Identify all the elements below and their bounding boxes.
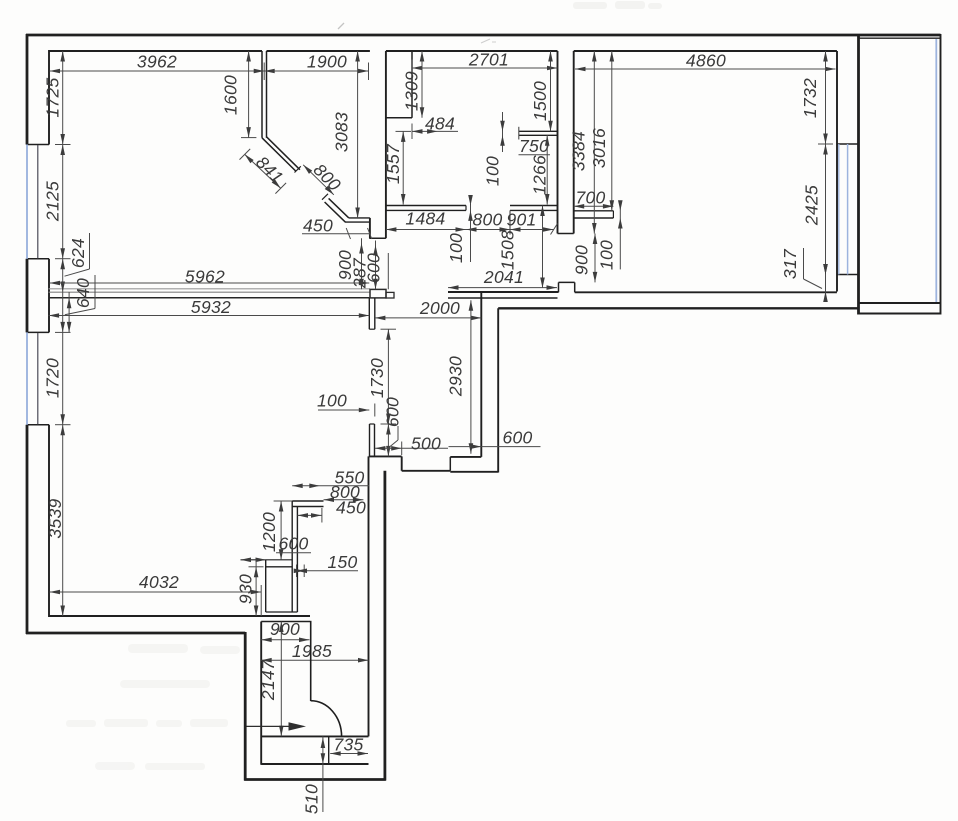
wall corridor outer left — [244, 632, 247, 781]
svg-text:5932: 5932 — [191, 297, 231, 317]
dimension 750 shelf — [519, 136, 551, 156]
scan ghost bottom words — [66, 644, 240, 770]
wall outer bottom-left — [26, 632, 245, 635]
wall bottom room top edge — [49, 615, 310, 617]
partition bath A — [386, 206, 466, 211]
dimension 2425 — [802, 144, 834, 275]
wall inner left mid — [48, 259, 50, 333]
svg-text:4032: 4032 — [139, 572, 179, 592]
dimension 735 niche — [330, 735, 368, 756]
svg-text:1732: 1732 — [800, 78, 820, 118]
dimension 4860 bedroom top — [575, 51, 836, 72]
svg-text:800: 800 — [472, 210, 502, 230]
dimension 5932 — [49, 297, 370, 318]
svg-text:1900: 1900 — [307, 52, 347, 72]
svg-text:2425: 2425 — [802, 185, 822, 226]
closet partition — [292, 501, 297, 612]
partition bath B — [510, 206, 558, 235]
dimension 287 junction — [350, 241, 378, 290]
svg-text:450: 450 — [336, 498, 366, 518]
svg-text:900: 900 — [270, 619, 300, 639]
closet cell left — [265, 560, 267, 612]
svg-text:3384: 3384 — [569, 131, 589, 171]
balcony bottom inner — [859, 302, 941, 304]
svg-text:600: 600 — [364, 253, 384, 283]
dimension 2041 — [448, 267, 557, 290]
dimension 1725 — [43, 51, 71, 145]
window W1 mid line — [37, 145, 39, 258]
wall corridor outer right — [383, 471, 386, 781]
svg-text:317: 317 — [780, 248, 800, 279]
wall hall south step — [369, 456, 498, 471]
wall hall east outer — [497, 308, 499, 472]
dimension 2000 hall — [375, 298, 481, 320]
svg-text:1557: 1557 — [383, 143, 403, 184]
dimension 3962 top — [50, 52, 265, 81]
wall kitchen south bottom — [448, 297, 558, 299]
closet top wall — [292, 501, 323, 507]
hall partition stub — [370, 424, 375, 456]
dimension 800 closet door — [324, 482, 364, 502]
dimension 600 junction — [364, 253, 389, 289]
window W3 blue lines — [839, 144, 848, 275]
svg-text:735: 735 — [333, 735, 363, 755]
entry arrow — [247, 722, 307, 730]
dimension 510 niche — [302, 736, 326, 814]
svg-text:600: 600 — [278, 534, 308, 554]
dimension 1600 partition — [221, 51, 257, 138]
wall bedroom pier — [559, 282, 575, 292]
wall corridor top band — [261, 621, 310, 623]
dimension 1720 — [43, 322, 71, 435]
junction box — [370, 289, 386, 298]
wall room divider line3 — [49, 297, 370, 299]
wall outer right — [857, 34, 860, 315]
balcony top edge — [859, 37, 941, 39]
svg-text:4860: 4860 — [686, 51, 726, 71]
svg-text:484: 484 — [425, 114, 455, 134]
window W1 sill top — [27, 144, 50, 146]
window W1 sill bottom — [27, 258, 50, 260]
dimension 484 — [412, 114, 458, 140]
window W2 outer blue — [26, 332, 28, 424]
dimension 3083 kitchen west — [332, 51, 360, 218]
wall inner top kitchen — [386, 50, 558, 52]
dimension 2701 kitchen top — [412, 50, 558, 77]
dimension 841 diagonal — [240, 149, 288, 194]
dimension 624 ticks — [60, 233, 89, 292]
svg-text:3016: 3016 — [589, 128, 609, 168]
svg-text:640: 640 — [73, 278, 93, 308]
dimension 100 bedroom partition — [597, 200, 623, 270]
dimension 1266 — [530, 135, 550, 204]
shelf 750 closet — [519, 127, 558, 140]
svg-text:100: 100 — [483, 156, 503, 186]
wall outer left lower — [26, 425, 29, 634]
dimension 4032 — [50, 572, 262, 616]
window W3 sill bottom — [837, 274, 859, 276]
dimension 500 hall south — [375, 434, 448, 456]
balcony bottom outer — [859, 313, 941, 315]
wall kitchen south top — [448, 291, 559, 293]
svg-text:1266: 1266 — [530, 155, 550, 195]
balcony right wall — [940, 34, 942, 315]
svg-text:100: 100 — [317, 391, 347, 411]
dimension 1557 — [383, 131, 411, 204]
wall corridor niche bottom — [261, 763, 368, 765]
door arc entry corridor — [311, 701, 342, 737]
wall band cap y238 — [369, 237, 386, 239]
window W2 sill top — [27, 331, 50, 333]
window W3 sill top — [837, 143, 859, 145]
dimension 2125 — [43, 145, 71, 259]
dimension 900 corridor — [261, 619, 309, 642]
dimension 100 shelf — [483, 112, 505, 186]
dimension 450 kitchen corner — [302, 216, 372, 240]
dimension 1732 — [800, 51, 828, 144]
dimension 901 — [506, 210, 557, 235]
svg-text:150: 150 — [327, 552, 357, 572]
dimension 1508 — [498, 206, 545, 289]
svg-text:1720: 1720 — [43, 358, 63, 398]
wall south band inner bedroom — [575, 291, 837, 293]
svg-text:1200: 1200 — [259, 512, 279, 552]
junction stub box — [386, 292, 394, 298]
wall inner top closet — [267, 50, 370, 52]
svg-text:2147: 2147 — [258, 659, 278, 701]
dimension 100 hall partition — [317, 391, 375, 417]
svg-text:700: 700 — [575, 188, 605, 208]
svg-text:2000: 2000 — [419, 298, 460, 318]
dimension 1730 hall door — [367, 329, 396, 424]
wall inner left lower — [48, 425, 50, 617]
svg-text:450: 450 — [303, 216, 333, 236]
vent block kitchen — [386, 51, 412, 118]
dimension 3016 — [589, 51, 614, 211]
svg-text:1730: 1730 — [367, 358, 387, 398]
svg-text:750: 750 — [519, 136, 549, 156]
svg-text:1309: 1309 — [402, 71, 422, 111]
wall outer top — [26, 34, 941, 37]
wall outer left upper — [26, 34, 29, 145]
closet cell bottom — [266, 611, 298, 613]
diagonal wall D1 — [262, 137, 301, 173]
svg-text:3962: 3962 — [137, 52, 177, 72]
wall inner left upper — [48, 50, 50, 145]
partition bedroom 700 — [574, 211, 614, 218]
hall partition upper — [369, 298, 375, 329]
svg-text:3539: 3539 — [45, 498, 65, 538]
dimension 900 junction — [335, 238, 364, 289]
dimension 1500 — [530, 51, 553, 131]
scan smudge top — [338, 23, 496, 43]
door leaf line corridor — [310, 621, 312, 701]
dimension 150 closet — [294, 552, 358, 577]
dimension 317 — [780, 248, 828, 302]
wall inner top bedroom — [574, 50, 837, 52]
wall outer left mid — [26, 259, 29, 333]
wall inner top room1 — [49, 50, 262, 52]
svg-text:2041: 2041 — [483, 267, 524, 287]
svg-text:2930: 2930 — [446, 356, 466, 397]
svg-text:901: 901 — [506, 210, 536, 230]
wall south band outer — [498, 307, 858, 309]
svg-text:510: 510 — [302, 784, 322, 814]
window W2 sill bottom — [27, 424, 50, 426]
dimension 800 bath door — [466, 210, 510, 232]
wall corridor inner right — [368, 456, 370, 736]
wall corridor outer bottom — [244, 778, 386, 781]
dimension 450 closet — [298, 498, 367, 523]
dimension 550 closet — [292, 468, 369, 489]
svg-text:3083: 3083 — [332, 112, 352, 152]
dimension 1900 top — [264, 52, 368, 81]
dimension 600 stub — [383, 397, 403, 456]
wall corridor inner left — [260, 622, 262, 765]
svg-text:500: 500 — [411, 434, 441, 454]
wall corridor niche jamb — [328, 736, 330, 764]
svg-text:1508: 1508 — [498, 230, 518, 270]
dimension 2147 corridor — [258, 622, 284, 737]
svg-text:624: 624 — [68, 238, 88, 268]
dimension 800 diagonal door — [303, 160, 345, 195]
svg-text:1484: 1484 — [405, 209, 445, 229]
dimension 640 ticks — [65, 275, 95, 332]
dimension 600 cell — [241, 534, 312, 563]
dimension 3384 — [569, 51, 597, 234]
wall hall east — [480, 292, 482, 457]
diagonal wall D2 — [322, 194, 349, 222]
closet cell top upper — [241, 559, 293, 561]
svg-text:930: 930 — [236, 574, 256, 604]
dimension 100 bath door edge — [446, 195, 473, 263]
window W2 mid line — [37, 333, 39, 424]
svg-text:900: 900 — [572, 245, 592, 275]
wall room divider line1 — [49, 288, 370, 290]
dimension 1309 vent — [402, 51, 425, 118]
dimension 1484 bath — [386, 209, 466, 232]
svg-text:2701: 2701 — [468, 50, 509, 70]
dimension 3539 — [45, 414, 65, 616]
dimension 5962 — [50, 267, 370, 287]
svg-text:5962: 5962 — [185, 267, 225, 287]
balcony window blue — [935, 39, 937, 302]
dimension 1200 closet — [259, 501, 292, 560]
wall corridor inner bottom — [261, 735, 368, 737]
svg-text:600: 600 — [383, 397, 403, 427]
svg-text:600: 600 — [502, 428, 532, 448]
dimension 900 bedroom door — [572, 234, 598, 283]
wall bedroom east inner — [836, 51, 838, 292]
svg-text:1500: 1500 — [530, 81, 550, 121]
svg-text:1725: 1725 — [43, 77, 63, 117]
wall room divider line2 — [49, 291, 370, 293]
svg-text:1600: 1600 — [221, 75, 241, 115]
dimension 700 bedroom — [574, 188, 614, 209]
wall kitchen west line — [385, 51, 387, 238]
dimension line left chain — [62, 51, 64, 616]
wall kitchen west lower corner — [345, 218, 370, 222]
svg-text:1985: 1985 — [292, 641, 332, 661]
dimension 1985 corridor — [261, 641, 368, 663]
wall kitchen west face — [369, 218, 371, 238]
svg-text:100: 100 — [597, 240, 617, 270]
wall kitchen/bedroom band — [558, 51, 574, 234]
svg-text:2125: 2125 — [43, 181, 63, 222]
window W1 outer blue — [26, 145, 28, 259]
dimension 2930 — [446, 300, 474, 454]
dimension 930 cell — [236, 560, 264, 616]
partition room1/closet — [262, 51, 267, 138]
svg-text:100: 100 — [446, 233, 466, 263]
scan ghost top strip — [573, 1, 662, 9]
closet cell top lower — [266, 566, 293, 568]
dimension 600 hall east — [449, 428, 541, 449]
